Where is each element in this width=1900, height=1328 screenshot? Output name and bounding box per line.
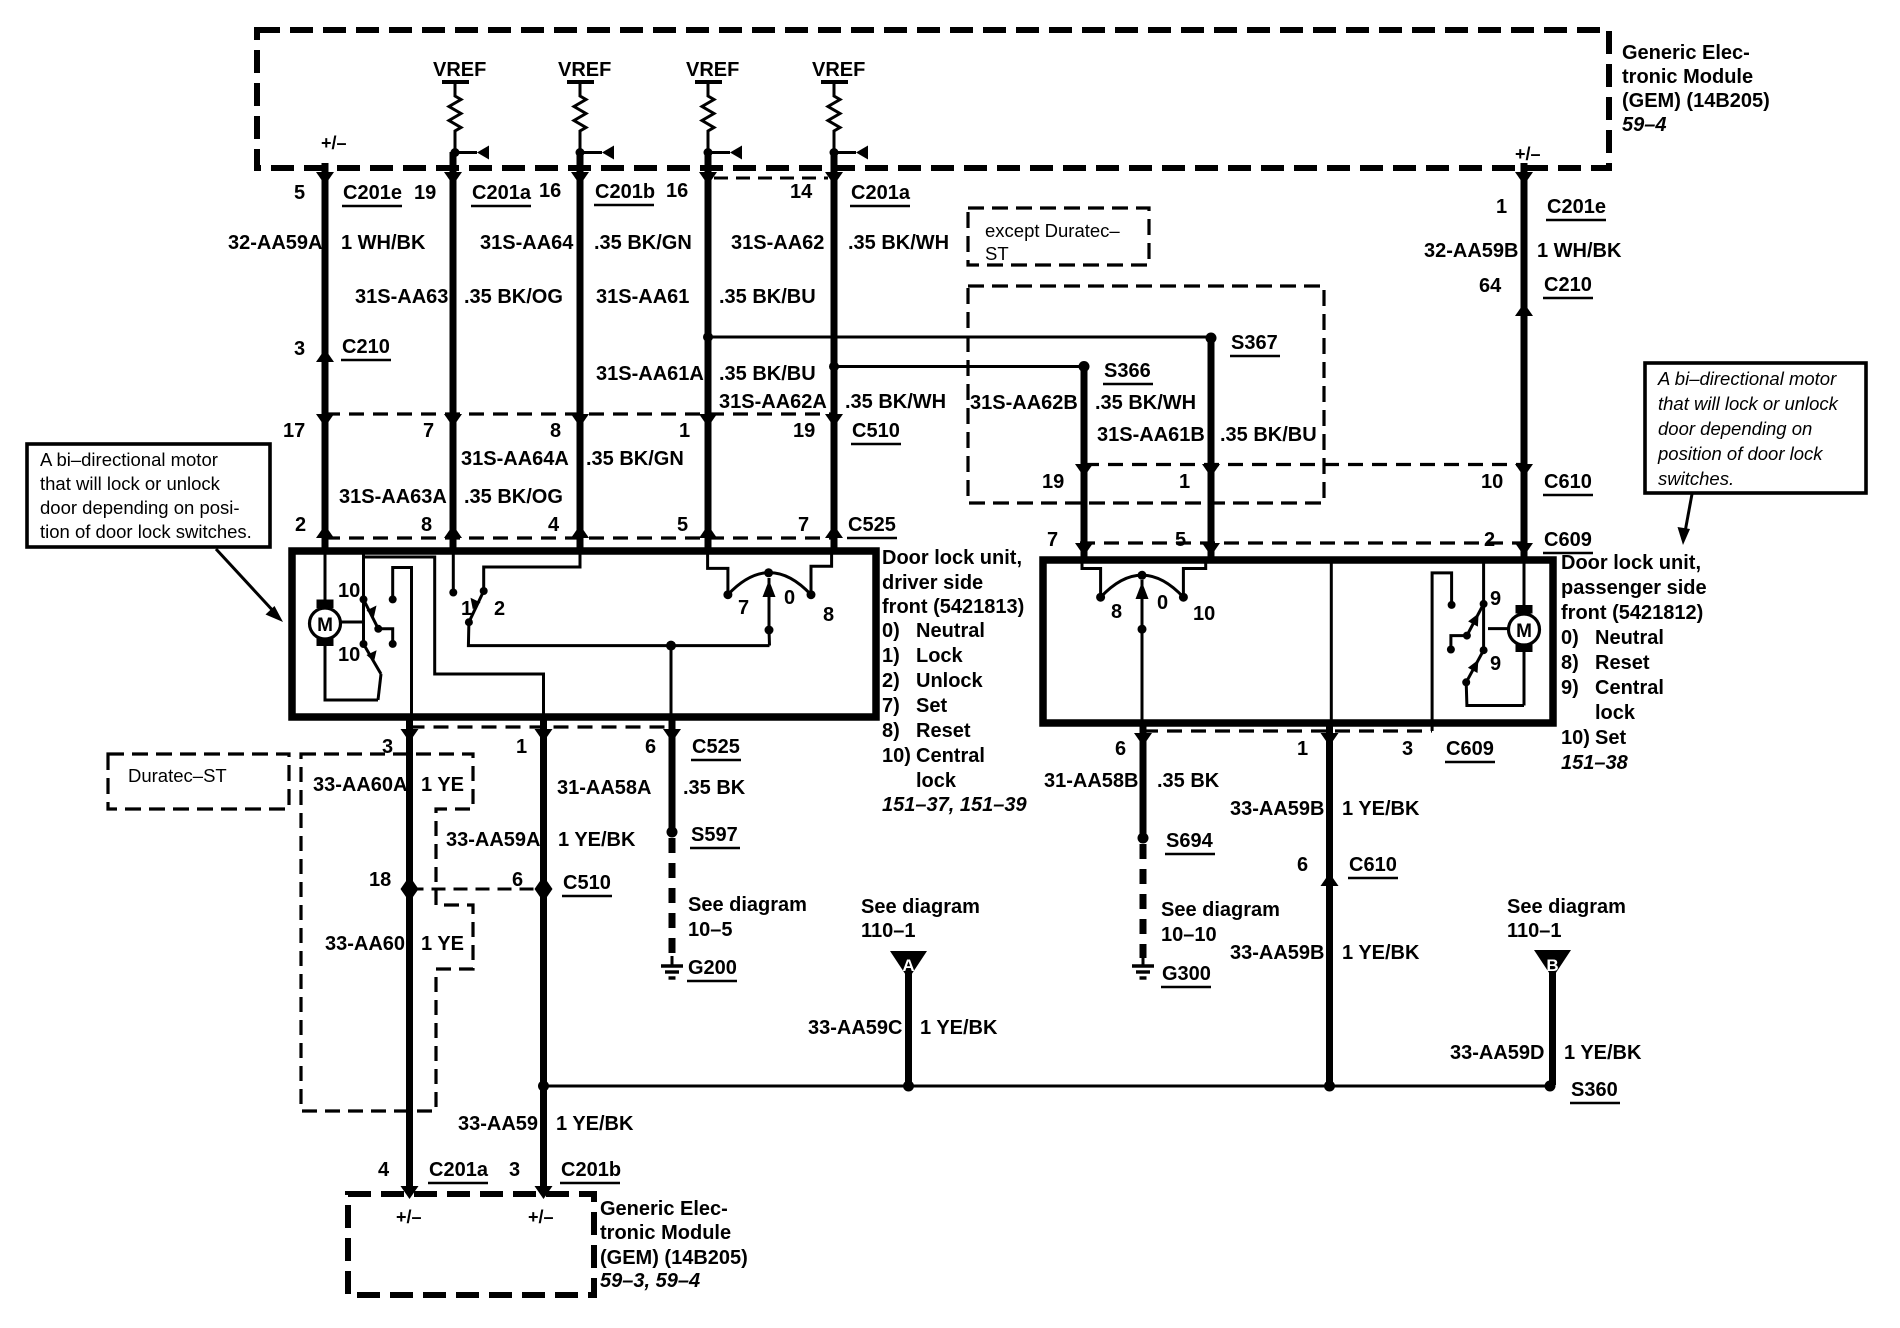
svg-text:31S-AA62A: 31S-AA62A <box>719 391 827 413</box>
svg-text:1 YE/BK: 1 YE/BK <box>558 829 636 851</box>
motor M1 right lead <box>341 621 364 624</box>
svg-text:0: 0 <box>784 587 795 609</box>
svg-text:1): 1) <box>882 645 900 667</box>
svg-text:1 YE/BK: 1 YE/BK <box>1342 942 1420 964</box>
driver set/reset contact 8 stub <box>807 551 832 599</box>
svg-text:1 YE/BK: 1 YE/BK <box>1342 798 1420 820</box>
see diagram 10-5 note <box>688 894 807 941</box>
splice S360 <box>1545 1079 1621 1103</box>
svg-text:1 WH/BK: 1 WH/BK <box>341 232 426 254</box>
svg-text:front (5421812): front (5421812) <box>1561 602 1703 624</box>
svg-text:.35 BK/BU: .35 BK/BU <box>719 286 816 308</box>
wire 31-AA58B (x=1143) <box>1044 723 1220 838</box>
svg-text:VREF: VREF <box>812 59 865 81</box>
Duratec-ST option label box <box>108 754 289 809</box>
svg-text:S366: S366 <box>1104 360 1151 382</box>
wire 33-AA59B (x=1329.5) <box>1230 723 1420 1086</box>
svg-text:1 YE: 1 YE <box>421 774 464 796</box>
connector B triangle (to diagram 110-1) <box>1507 896 1626 978</box>
svg-text:.35 BK/GN: .35 BK/GN <box>594 232 692 254</box>
splice S694 <box>1138 830 1216 854</box>
svg-text:.35 BK/WH: .35 BK/WH <box>845 391 946 413</box>
svg-text:31S-AA61A: 31S-AA61A <box>596 363 704 385</box>
svg-text:9): 9) <box>1561 677 1579 699</box>
svg-text:18: 18 <box>369 869 391 891</box>
svg-text:G200: G200 <box>688 957 737 979</box>
wire 31S-AA62B label row <box>970 392 1196 414</box>
driver switch arm 1-2 <box>465 591 484 626</box>
svg-text:59–4: 59–4 <box>1622 114 1667 136</box>
svg-text:C510: C510 <box>852 420 900 442</box>
svg-text:.35 BK/GN: .35 BK/GN <box>586 448 684 470</box>
svg-text:VREF: VREF <box>558 59 611 81</box>
driver common wire to pin 6 <box>468 622 769 717</box>
svg-text:driver side: driver side <box>882 572 983 594</box>
svg-text:31S-AA63A: 31S-AA63A <box>339 486 447 508</box>
svg-text:64: 64 <box>1479 275 1502 297</box>
driver unit: pin2 wire to motor <box>324 551 327 600</box>
svg-text:32-AA59B: 32-AA59B <box>1424 240 1518 262</box>
svg-text:+/–: +/– <box>528 1207 554 1227</box>
wire 33-AA60A / 33-AA60 (x=409.5) <box>401 717 419 1199</box>
svg-text:+/–: +/– <box>321 133 347 153</box>
svg-text:1 WH/BK: 1 WH/BK <box>1537 240 1622 262</box>
wire 32-AA59B (right, GEM pin1 to passenger unit, x=1524) <box>1521 163 1528 558</box>
svg-text:switches.: switches. <box>1658 468 1734 489</box>
wire 33-AA59B lower label <box>1230 942 1420 964</box>
passenger unit description text <box>1561 552 1707 774</box>
svg-text:passenger side: passenger side <box>1561 577 1707 599</box>
svg-text:A: A <box>902 956 914 975</box>
connector C510 second row <box>369 869 612 896</box>
connector C610 row (right) <box>1042 465 1593 496</box>
see diagram 10-10 note <box>1161 899 1280 946</box>
svg-text:1: 1 <box>679 420 690 442</box>
svg-text:33-AA59C: 33-AA59C <box>808 1017 902 1039</box>
net 33-AA59 long horizontal wire <box>538 1081 1550 1092</box>
splice S367 <box>1206 332 1281 356</box>
svg-text:B: B <box>1546 956 1558 975</box>
svg-text:tion of door lock switches.: tion of door lock switches. <box>40 521 252 542</box>
svg-text:Central: Central <box>916 745 985 767</box>
wire label row 32-AA59A / 1 WH/BK / 31S-AA64 / .35 BK/GN / 31S-AA62 / .35 BK/WH <box>228 232 949 254</box>
connector C201a / C201b bottom labels <box>378 1159 621 1183</box>
connector C609 second row (below passenger box) <box>1115 731 1495 762</box>
right wire connector labels C201e / C210 <box>1424 196 1622 298</box>
svg-text:7: 7 <box>1047 529 1058 551</box>
svg-text:2: 2 <box>295 514 306 536</box>
resistor R-VREF4 with VREF node <box>812 59 868 160</box>
wire labels 33-AA59 / 1 YE/BK <box>458 1113 634 1135</box>
driver pin1 internal wire <box>364 557 544 717</box>
wire 31S-AA63A label row <box>339 486 563 508</box>
svg-text:17: 17 <box>283 420 305 442</box>
svg-text:VREF: VREF <box>686 59 739 81</box>
svg-text:31S-AA61: 31S-AA61 <box>596 286 689 308</box>
svg-text:8: 8 <box>823 604 834 626</box>
svg-text:31S-AA64A: 31S-AA64A <box>461 448 569 470</box>
svg-text:7: 7 <box>798 514 809 536</box>
svg-text:19: 19 <box>793 420 815 442</box>
svg-text:110–1: 110–1 <box>1507 920 1562 942</box>
svg-text:33-AA59B: 33-AA59B <box>1230 798 1324 820</box>
svg-text:Reset: Reset <box>916 720 971 742</box>
wire labels 33-AA59A / 1 YE/BK <box>446 829 636 851</box>
svg-text:9: 9 <box>1490 588 1501 610</box>
svg-text:See diagram: See diagram <box>861 896 980 918</box>
ground G200 <box>661 956 737 981</box>
motor M2 left lead <box>1488 627 1509 630</box>
svg-text:151–38: 151–38 <box>1561 752 1629 774</box>
svg-text:C201e: C201e <box>343 182 402 204</box>
svg-text:31-AA58B: 31-AA58B <box>1044 770 1138 792</box>
svg-text:S597: S597 <box>691 824 738 846</box>
left note arrow <box>216 549 283 622</box>
svg-text:31S-AA63: 31S-AA63 <box>355 286 448 308</box>
connector C510 row (left) <box>283 414 901 444</box>
connector C525 second row (below driver box) <box>382 727 741 760</box>
svg-text:7): 7) <box>882 695 900 717</box>
svg-text:C610: C610 <box>1544 471 1592 493</box>
svg-text:151–37, 151–39: 151–37, 151–39 <box>882 794 1027 816</box>
svg-text:5: 5 <box>677 514 688 536</box>
svg-text:Neutral: Neutral <box>1595 627 1664 649</box>
svg-text:C210: C210 <box>342 336 390 358</box>
svg-text:.35 BK/BU: .35 BK/BU <box>1220 424 1317 446</box>
svg-text:C525: C525 <box>848 514 896 536</box>
driver set/reset contact 7 stub <box>708 551 733 599</box>
svg-text:.35 BK/WH: .35 BK/WH <box>848 232 949 254</box>
svg-text:33-AA59D: 33-AA59D <box>1450 1042 1544 1064</box>
svg-text:10: 10 <box>338 580 360 602</box>
svg-text:tronic Module: tronic Module <box>600 1222 731 1244</box>
svg-text:+/–: +/– <box>1515 144 1541 164</box>
svg-text:door depending on: door depending on <box>1658 418 1812 439</box>
svg-text:59–3, 59–4: 59–3, 59–4 <box>600 1270 700 1292</box>
svg-text:Central: Central <box>1595 677 1664 699</box>
svg-text:5: 5 <box>294 182 305 204</box>
svg-text:0): 0) <box>882 620 900 642</box>
connector C610 pin 6 label <box>1297 854 1398 878</box>
svg-text:C210: C210 <box>1544 274 1592 296</box>
svg-text:5: 5 <box>1175 529 1186 551</box>
wire 33-AA59C (below A) <box>808 956 998 1086</box>
svg-text:33-AA60A: 33-AA60A <box>313 774 407 796</box>
svg-text:See diagram: See diagram <box>1507 896 1626 918</box>
svg-text:0): 0) <box>1561 627 1579 649</box>
svg-text:10–10: 10–10 <box>1161 924 1217 946</box>
driver switch arm upper (to 10) <box>364 599 397 648</box>
motor M1 bottom wire loop <box>325 646 378 700</box>
svg-text:M: M <box>317 615 333 636</box>
driver unit description text <box>882 547 1027 816</box>
svg-text:1: 1 <box>1179 471 1190 493</box>
wire 31S-AA62 (x=834) <box>831 152 838 549</box>
svg-text:6: 6 <box>1297 854 1308 876</box>
svg-text:C610: C610 <box>1349 854 1397 876</box>
wire label row 31S-AA63 / .35 BK/OG / 31S-AA61 / .35 BK/BU <box>355 286 816 308</box>
svg-text:16: 16 <box>539 180 561 202</box>
passenger contact 8 stub <box>1082 560 1105 602</box>
svg-text:4: 4 <box>548 514 560 536</box>
svg-text:.35 BK/OG: .35 BK/OG <box>464 286 563 308</box>
svg-text:10: 10 <box>1481 471 1503 493</box>
wire 31-AA58A / 33-AA59A / 33-AA59 (x=543.5) <box>535 717 553 1199</box>
svg-text:31S-AA62: 31S-AA62 <box>731 232 824 254</box>
svg-text:14: 14 <box>790 181 813 203</box>
left note callout box <box>27 444 270 547</box>
svg-text:7: 7 <box>738 597 749 619</box>
svg-text:door depending on posi-: door depending on posi- <box>40 497 240 518</box>
svg-text:(GEM) (14B205): (GEM) (14B205) <box>600 1247 748 1269</box>
wire 31S-AA61B (S367 down, x=1211) <box>1202 338 1220 558</box>
svg-text:See diagram: See diagram <box>1161 899 1280 921</box>
svg-text:2: 2 <box>1484 529 1495 551</box>
passenger rotary arc <box>1101 571 1184 723</box>
Duratec-ST region dashed outline <box>301 754 473 1111</box>
motor M2 (passenger) <box>1509 560 1540 706</box>
svg-text:Neutral: Neutral <box>916 620 985 642</box>
svg-text:6: 6 <box>1115 738 1126 760</box>
svg-text:1 YE/BK: 1 YE/BK <box>920 1017 998 1039</box>
door lock unit passenger side box <box>1043 560 1553 723</box>
svg-text:10: 10 <box>338 644 360 666</box>
svg-text:C201a: C201a <box>472 182 532 204</box>
svg-text:that will lock or unlock: that will lock or unlock <box>40 473 221 494</box>
svg-text:31S-AA61B: 31S-AA61B <box>1097 424 1205 446</box>
passenger contacts link wire <box>1482 604 1485 650</box>
connector C210 (wire1) pin 3 <box>294 336 391 360</box>
svg-text:10–5: 10–5 <box>688 919 733 941</box>
svg-text:1: 1 <box>516 736 527 758</box>
resistor R-VREF1 with VREF node <box>433 59 489 160</box>
svg-text:1: 1 <box>461 598 472 620</box>
svg-text:32-AA59A: 32-AA59A <box>228 232 322 254</box>
passenger contact 10 stub <box>1179 560 1206 602</box>
svg-text:10): 10) <box>882 745 911 767</box>
svg-text:9: 9 <box>1490 653 1501 675</box>
svg-text:front (5421813): front (5421813) <box>882 596 1024 618</box>
right note callout box <box>1645 363 1866 493</box>
svg-text:6: 6 <box>645 736 656 758</box>
svg-text:ST: ST <box>985 243 1009 264</box>
wire 31S-AA61A label row <box>596 363 816 385</box>
svg-text:31-AA58A: 31-AA58A <box>557 777 651 799</box>
svg-text:6: 6 <box>512 869 523 891</box>
svg-text:.35 BK/OG: .35 BK/OG <box>464 486 563 508</box>
svg-text:33-AA59A: 33-AA59A <box>446 829 540 851</box>
GEM top module box (Generic Electronic Module) <box>257 30 1609 168</box>
wire 31S-AA61 (x=708) <box>705 152 712 549</box>
passenger pin3 hook wire <box>1432 573 1456 731</box>
svg-text:C201a: C201a <box>851 182 911 204</box>
svg-text:0: 0 <box>1157 592 1168 614</box>
svg-text:8): 8) <box>1561 652 1579 674</box>
svg-text:C201a: C201a <box>429 1159 489 1181</box>
passenger switch arm upper <box>1447 604 1484 654</box>
svg-text:Generic Elec-: Generic Elec- <box>1622 42 1750 64</box>
svg-text:A bi–directional motor: A bi–directional motor <box>40 449 218 470</box>
svg-text:C201b: C201b <box>595 181 655 203</box>
driver switch upper contact 10 stub <box>362 551 365 599</box>
svg-text:7: 7 <box>423 420 434 442</box>
svg-text:S367: S367 <box>1231 332 1278 354</box>
svg-text:A bi–directional motor: A bi–directional motor <box>1657 368 1837 389</box>
svg-text:Generic Elec-: Generic Elec- <box>600 1198 728 1220</box>
svg-text:See diagram: See diagram <box>688 894 807 916</box>
wire 33-AA59D (below B) <box>1450 956 1642 1085</box>
except Duratec-ST region dashed box <box>968 286 1324 503</box>
connector A triangle (to diagram 110-1) <box>861 896 980 979</box>
wire S597 to G200 (dashed) <box>669 838 676 958</box>
passenger switch lower contact 9 <box>1480 646 1488 654</box>
svg-text:C525: C525 <box>692 736 740 758</box>
svg-text:33-AA59: 33-AA59 <box>458 1113 538 1135</box>
svg-text:10): 10) <box>1561 727 1590 749</box>
svg-text:S360: S360 <box>1571 1079 1618 1101</box>
svg-text:Duratec–ST: Duratec–ST <box>128 765 227 786</box>
wire 32-AA59A (GEM pin5 to driver unit pin2, x=325) <box>322 163 329 549</box>
svg-text:8: 8 <box>550 420 561 442</box>
svg-text:that will lock or unlock: that will lock or unlock <box>1658 393 1840 414</box>
node S367 branch wire (31S-AA61A horizontal, y=337) <box>703 332 1211 342</box>
wire 31S-AA61B label row <box>1097 424 1317 446</box>
driver pin8 stub (wire2) <box>449 551 457 597</box>
svg-text:1: 1 <box>1297 738 1308 760</box>
right note arrow <box>1678 494 1693 545</box>
svg-text:2: 2 <box>494 598 505 620</box>
svg-text:Door lock unit,: Door lock unit, <box>1561 552 1701 574</box>
svg-text:lock: lock <box>1595 702 1636 724</box>
svg-text:1 YE/BK: 1 YE/BK <box>556 1113 634 1135</box>
connector dash segment between wire4 and wire5 <box>714 177 828 180</box>
GEM top title text <box>1622 42 1770 136</box>
svg-text:C510: C510 <box>563 872 611 894</box>
svg-text:Set: Set <box>916 695 947 717</box>
svg-text:33-AA59B: 33-AA59B <box>1230 942 1324 964</box>
resistor R-VREF3 with VREF node <box>686 59 742 160</box>
connector C201 row labels <box>294 178 911 206</box>
ground G300 <box>1132 956 1211 987</box>
except Duratec-ST option box <box>968 208 1149 265</box>
svg-text:8: 8 <box>421 514 432 536</box>
wire 31S-AA64A label row <box>461 448 684 470</box>
svg-text:8: 8 <box>1111 601 1122 623</box>
driver switch lower contact 10 <box>360 640 368 648</box>
driver rotary arc <box>728 568 811 645</box>
wire 31-AA58A (.35 BK, x=672) <box>663 717 681 832</box>
connector C525 row <box>295 514 897 538</box>
svg-text:19: 19 <box>1042 471 1064 493</box>
GEM bottom title text <box>600 1198 748 1292</box>
svg-text:position of door lock: position of door lock <box>1657 443 1824 464</box>
svg-text:4: 4 <box>378 1159 390 1181</box>
svg-text:C609: C609 <box>1544 529 1592 551</box>
svg-text:1 YE: 1 YE <box>421 933 464 955</box>
svg-text:.35 BK/BU: .35 BK/BU <box>719 363 816 385</box>
resistor R-VREF2 with VREF node <box>558 59 614 160</box>
splice S366 <box>1079 360 1154 384</box>
svg-text:.35 BK: .35 BK <box>1157 770 1220 792</box>
svg-text:31S-AA64: 31S-AA64 <box>480 232 574 254</box>
node S366 branch wire (31S-AA62A horizontal, y=366.5) <box>829 362 1084 372</box>
svg-text:Set: Set <box>1595 727 1626 749</box>
svg-text:lock: lock <box>916 770 957 792</box>
svg-text:+/–: +/– <box>396 1207 422 1227</box>
svg-text:Door lock unit,: Door lock unit, <box>882 547 1022 569</box>
wire labels 33-AA60A / 1 YE and 31-AA58A / .35 BK <box>313 774 746 799</box>
svg-text:3: 3 <box>509 1159 520 1181</box>
svg-text:.35 BK: .35 BK <box>683 777 746 799</box>
svg-text:except Duratec–: except Duratec– <box>985 220 1120 241</box>
door lock unit driver side box <box>292 551 876 717</box>
passenger switch upper contact 9 <box>1480 600 1488 608</box>
svg-text:tronic Module: tronic Module <box>1622 66 1753 88</box>
svg-text:C609: C609 <box>1446 738 1494 760</box>
svg-text:33-AA60: 33-AA60 <box>325 933 405 955</box>
driver pin3 hook wire <box>389 568 412 718</box>
connector C609 row (right) <box>1047 529 1593 553</box>
driver lock/unlock switch feed from pin4 wire <box>484 551 580 591</box>
svg-text:8): 8) <box>882 720 900 742</box>
wire S694 to G300 (dashed) <box>1140 844 1147 958</box>
svg-text:S694: S694 <box>1166 830 1214 852</box>
svg-text:31S-AA62B: 31S-AA62B <box>970 392 1078 414</box>
svg-text:.35 BK/WH: .35 BK/WH <box>1095 392 1196 414</box>
driver switch arm lower (to motor loop) <box>364 644 382 700</box>
svg-text:1: 1 <box>1496 196 1507 218</box>
driver contacts link wire <box>362 599 365 644</box>
wire labels 33-AA60 / 1 YE <box>325 933 464 955</box>
wire 31S-AA63 (x=453) <box>450 152 457 549</box>
svg-text:19: 19 <box>414 182 436 204</box>
svg-text:1 YE/BK: 1 YE/BK <box>1564 1042 1642 1064</box>
svg-text:Lock: Lock <box>916 645 964 667</box>
svg-text:Unlock: Unlock <box>916 670 984 692</box>
wire 31S-AA62B (S366 down, x=1084) <box>1075 366 1093 558</box>
svg-text:Reset: Reset <box>1595 652 1650 674</box>
svg-text:110–1: 110–1 <box>861 920 916 942</box>
svg-text:C201b: C201b <box>561 1159 621 1181</box>
svg-text:VREF: VREF <box>433 59 486 81</box>
svg-text:10: 10 <box>1193 603 1215 625</box>
splice S597 <box>667 824 741 848</box>
svg-text:3: 3 <box>294 338 305 360</box>
wire 31S-AA64 (x=580) <box>577 152 584 549</box>
svg-text:3: 3 <box>1402 738 1413 760</box>
motor M1 (driver) <box>310 600 341 647</box>
svg-text:16: 16 <box>666 180 688 202</box>
svg-text:G300: G300 <box>1162 963 1211 985</box>
passenger switch arm lower <box>1462 650 1524 705</box>
svg-text:2): 2) <box>882 670 900 692</box>
GEM bottom module box <box>348 1194 594 1295</box>
svg-text:(GEM) (14B205): (GEM) (14B205) <box>1622 90 1770 112</box>
svg-text:M: M <box>1516 621 1532 642</box>
wire 31S-AA62A label row <box>719 391 946 413</box>
svg-text:C201e: C201e <box>1547 196 1606 218</box>
passenger pin1 internal wire <box>1331 562 1483 723</box>
